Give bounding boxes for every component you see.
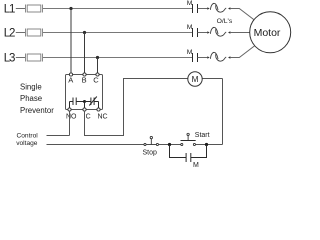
terminal C-out circle (83, 108, 86, 111)
single phase preventor box (66, 75, 103, 110)
svg-text:M: M (192, 75, 199, 84)
arrowhead OL2 right (228, 31, 230, 34)
terminal NO circle (68, 108, 71, 111)
junction L3 to preventor C (96, 56, 99, 59)
preventor internal junction dot (83, 100, 86, 103)
motor M1 (250, 12, 291, 53)
wire L3 lead to fuse (16, 57, 25, 59)
wire L2 lead to fuse (16, 32, 25, 34)
svg-text:B: B (82, 76, 87, 85)
svg-text:Control: Control (17, 132, 39, 139)
wire control line 1 (47, 135, 70, 137)
wire L2 horizontal run (43, 32, 193, 34)
svg-text:Single: Single (20, 82, 42, 91)
overload heater OL1 (210, 3, 226, 12)
wire pole 3 to OL (198, 57, 208, 59)
junction start-branch right (205, 143, 208, 146)
junction L1 to preventor A (69, 7, 72, 10)
svg-text:Start: Start (195, 132, 210, 139)
preventor internal NC contact (85, 97, 99, 109)
arrowhead OL3 right (228, 56, 230, 59)
arrowhead OL2 left (207, 31, 209, 34)
pushbutton stop (NC) (144, 136, 159, 145)
wire drop L2 to terminal B (84, 33, 86, 75)
arrowhead OL3 left (207, 56, 209, 59)
wire OL1 to motor (230, 9, 257, 23)
svg-text:L3: L3 (4, 53, 15, 65)
overload heater OL3 (210, 52, 226, 61)
svg-text:M: M (187, 49, 193, 56)
preventor internal NO contact (70, 98, 85, 109)
svg-text:Stop: Stop (143, 150, 158, 157)
svg-text:L2: L2 (4, 28, 15, 40)
wire drop L3 to terminal C (97, 58, 99, 75)
contact M auxiliary (holding) (170, 145, 207, 163)
svg-text:Motor: Motor (254, 27, 281, 39)
svg-text:L1: L1 (4, 4, 15, 16)
wire right riser to coil (222, 79, 224, 145)
wire C terminal down and right to coil (85, 79, 188, 136)
svg-text:M: M (187, 0, 193, 7)
wire L1 lead to fuse (16, 8, 25, 10)
wire stop to start (159, 144, 181, 146)
svg-text:voltage: voltage (16, 140, 38, 147)
fuse F3 on L3 (26, 54, 43, 62)
fuse F1 on L1 (26, 5, 43, 13)
svg-text:A: A (68, 76, 73, 85)
wire control line 2 to stop (47, 144, 144, 146)
wire pole 2 to OL (198, 32, 208, 34)
wire start to right corner (196, 144, 223, 146)
coil M contactor (188, 72, 202, 86)
junction L2 to preventor B (83, 31, 86, 34)
contact M main pole 3 (193, 53, 198, 62)
terminal B circle (83, 73, 86, 76)
svg-text:O/L's: O/L's (217, 18, 233, 25)
svg-text:M: M (193, 162, 199, 169)
wire NO terminal down (69, 111, 71, 135)
terminal NC circle (97, 108, 100, 111)
fuse F2 on L2 (26, 29, 43, 37)
svg-text:Preventor: Preventor (20, 106, 54, 115)
wire drop L1 to terminal A (70, 9, 72, 75)
pushbutton start (NO) (181, 133, 196, 145)
svg-text:NC: NC (98, 114, 108, 121)
svg-text:C: C (86, 114, 91, 121)
contact M main pole 2 (193, 28, 198, 37)
wire OL2 to motor (230, 32, 252, 34)
wire OL3 to motor (230, 44, 257, 58)
arrowhead OL1 right (228, 7, 230, 10)
wire coil right lead (202, 78, 222, 80)
terminal C circle (96, 73, 99, 76)
wire pole 1 to OL (198, 8, 208, 10)
wire L1 horizontal run (43, 8, 193, 10)
svg-text:M: M (187, 24, 193, 31)
arrowhead OL1 left (207, 7, 209, 10)
overload heater OL2 (210, 27, 226, 36)
svg-text:Phase: Phase (20, 94, 42, 103)
svg-text:NO: NO (66, 114, 77, 121)
junction start-branch left (168, 143, 171, 146)
wire L3 horizontal run (43, 57, 193, 59)
terminal A circle (69, 73, 72, 76)
svg-text:C: C (93, 76, 99, 85)
contact M main pole 1 (193, 4, 198, 13)
